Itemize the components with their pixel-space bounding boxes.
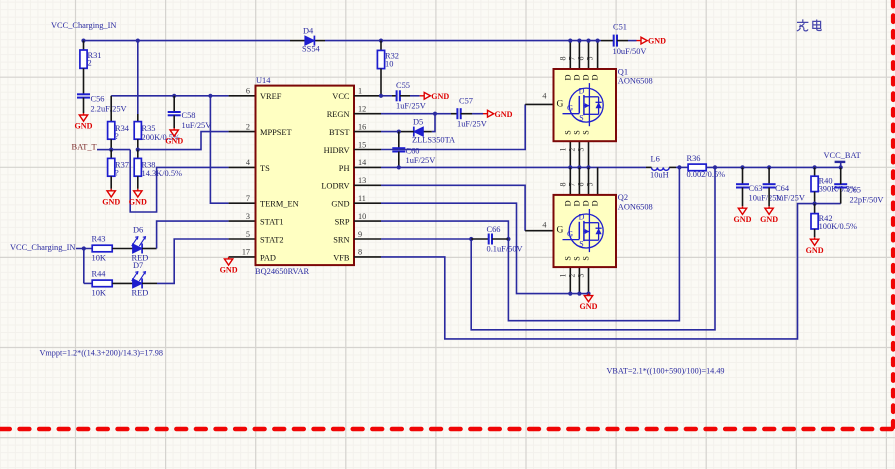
svg-text:Q1: Q1 <box>618 67 628 76</box>
svg-text:VCC_BAT: VCC_BAT <box>824 151 861 160</box>
ground right of C51 <box>637 37 648 44</box>
wire C57 to gnd <box>461 113 472 115</box>
svg-text:S: S <box>572 130 581 135</box>
svg-text:5: 5 <box>586 57 595 61</box>
svg-text:6: 6 <box>246 87 250 96</box>
svg-text:G: G <box>567 228 573 238</box>
svg-text:VCC: VCC <box>332 92 350 101</box>
svg-text:REGN: REGN <box>327 110 350 119</box>
resistor R31 <box>80 50 87 68</box>
pin 9 SRN stub <box>354 238 381 240</box>
resistor R32 top lead <box>380 41 382 51</box>
svg-text:C64: C64 <box>775 184 790 193</box>
pin 2 MPPSET stub <box>229 131 256 133</box>
wire C66 left lead <box>471 238 489 240</box>
wire MPPSET net <box>138 132 229 150</box>
wire D7 cathode <box>142 282 157 284</box>
capacitor C58 bottom lead <box>173 115 175 128</box>
svg-text:C66: C66 <box>487 225 501 234</box>
svg-text:4: 4 <box>246 158 250 167</box>
junction SRN/C66 <box>469 237 473 241</box>
wire to R43 <box>76 248 92 250</box>
wire GND net <box>381 203 589 293</box>
Q2 drain pins 8 7 6 5 <box>569 167 571 195</box>
svg-text:3: 3 <box>246 212 250 221</box>
wire BTST net <box>381 131 399 133</box>
svg-text:GND: GND <box>760 215 778 224</box>
svg-text:10: 10 <box>358 212 366 221</box>
svg-text:7: 7 <box>567 183 576 187</box>
Q1 drain pins 8 7 6 5 <box>569 41 571 69</box>
svg-text:2: 2 <box>246 122 250 131</box>
resistor R38 bottom lead <box>137 176 139 189</box>
svg-text:GND: GND <box>806 246 824 255</box>
svg-text:1uF/25V: 1uF/25V <box>406 156 436 165</box>
resistor R32 <box>377 50 384 68</box>
junction rail/R35-riser <box>136 39 140 43</box>
diode D4 <box>305 36 315 45</box>
svg-text:D7: D7 <box>133 261 143 270</box>
svg-text:BTST: BTST <box>329 128 349 137</box>
svg-text:D: D <box>572 200 581 206</box>
resistor R43 <box>92 245 112 252</box>
wire TERM_EN net <box>210 96 228 203</box>
capacitor C65 <box>834 183 847 185</box>
svg-text:STAT2: STAT2 <box>260 235 284 244</box>
pin 11 GND stub <box>354 202 381 204</box>
svg-text:R44: R44 <box>92 270 107 279</box>
svg-text:SRP: SRP <box>335 218 350 227</box>
capacitor C65 top lead <box>840 167 842 184</box>
svg-text:Q2: Q2 <box>618 193 628 202</box>
svg-text:5: 5 <box>586 183 595 187</box>
wire C65 bottom link <box>815 203 841 205</box>
svg-text:GND: GND <box>580 302 598 311</box>
capacitor C64 bottom lead <box>768 188 770 207</box>
svg-text:D5: D5 <box>413 118 423 127</box>
svg-text:3: 3 <box>577 148 586 152</box>
resistor R34 top lead <box>110 96 112 122</box>
svg-text:D6: D6 <box>133 226 143 235</box>
wire VREF net <box>111 95 228 97</box>
svg-text:10: 10 <box>385 60 393 69</box>
svg-text:D: D <box>582 74 591 80</box>
wire SRN net <box>381 167 715 329</box>
resistor R34 bottom lead <box>110 139 112 149</box>
svg-text:U14: U14 <box>256 76 271 85</box>
junction BAT_T/R34 <box>109 148 113 152</box>
svg-text:C63: C63 <box>749 184 763 193</box>
resistor R31 top lead <box>83 41 85 50</box>
junction rail/C65 <box>839 165 843 169</box>
svg-text:GND: GND <box>495 110 513 119</box>
capacitor C64 top lead <box>768 167 770 184</box>
wire R43-R44 riser <box>83 249 85 284</box>
inductor L6 <box>652 167 670 170</box>
svg-text:GND: GND <box>165 137 183 146</box>
transistor Q1 AON6508 <box>554 69 617 141</box>
wire R44 to D7 <box>112 282 132 284</box>
svg-text:0.1uF/50V: 0.1uF/50V <box>487 245 523 254</box>
svg-text:16: 16 <box>358 122 366 131</box>
capacitor C63 top lead <box>742 167 744 184</box>
resistor R42 <box>811 214 818 229</box>
resistor R37 <box>108 158 115 176</box>
svg-text:22pF/50V: 22pF/50V <box>850 196 884 205</box>
svg-text:C51: C51 <box>613 23 627 32</box>
svg-text:G: G <box>556 225 563 235</box>
resistor R40 <box>811 176 818 191</box>
svg-text:7: 7 <box>246 194 250 203</box>
resistor R38 top lead <box>137 150 139 159</box>
svg-text:HIDRV: HIDRV <box>324 146 350 155</box>
wire TS net <box>130 150 228 212</box>
svg-text:8: 8 <box>558 57 567 61</box>
capacitor C66 <box>488 234 490 245</box>
resistor R42 bottom lead <box>814 229 816 237</box>
wire VFB net <box>381 204 815 339</box>
svg-text:D: D <box>579 86 585 95</box>
junction SRP/C66 <box>506 237 510 241</box>
svg-text:8: 8 <box>558 183 567 187</box>
svg-text:G: G <box>556 100 563 110</box>
ground below R38 <box>134 189 142 197</box>
wire rail D4 leads <box>290 40 305 42</box>
svg-text:C65: C65 <box>847 186 861 195</box>
resistor R42 top lead <box>814 204 816 214</box>
svg-text:8: 8 <box>358 248 362 257</box>
svg-text:AON6508: AON6508 <box>618 202 653 211</box>
svg-text:S: S <box>582 130 591 135</box>
junction R40/R42/C65 <box>813 202 817 206</box>
svg-text:STAT1: STAT1 <box>260 218 284 227</box>
ground below C56 <box>79 113 87 121</box>
resistor R35 <box>134 122 141 140</box>
svg-text:VBAT=2.1*((100+590)/100)=14.49: VBAT=2.1*((100+590)/100)=14.49 <box>607 367 725 376</box>
pin 6 VREF stub <box>229 95 256 97</box>
svg-text:ZLLS350TA: ZLLS350TA <box>412 136 455 145</box>
red dashed border bottom <box>0 427 895 432</box>
ground below C63 <box>738 206 746 214</box>
svg-text:5: 5 <box>246 230 250 239</box>
svg-text:14: 14 <box>358 158 366 167</box>
svg-text:4: 4 <box>542 220 546 229</box>
pin 13 LODRV stub <box>354 184 381 186</box>
svg-text:13: 13 <box>358 176 366 185</box>
pin 3 STAT1 stub <box>229 220 256 222</box>
resistor R35 bottom lead <box>137 139 139 149</box>
svg-text:VREF: VREF <box>260 92 282 101</box>
wire VCC to C55 <box>381 95 392 97</box>
wire R36 to VCC_BAT rail <box>706 166 841 168</box>
ground right of C57 <box>483 110 494 117</box>
wire D5 anode lead <box>423 131 432 133</box>
svg-text:TS: TS <box>260 164 270 173</box>
svg-text:C57: C57 <box>459 97 473 106</box>
ground right of C55 <box>420 92 431 99</box>
svg-text:PH: PH <box>339 164 350 173</box>
junction VREF/TERM_EN riser <box>208 94 212 98</box>
pin 16 BTST stub <box>354 131 381 133</box>
ground at PAD <box>224 257 232 265</box>
svg-text:2.2uF/25V: 2.2uF/25V <box>91 105 127 114</box>
resistor R38 <box>134 158 141 176</box>
svg-text:15: 15 <box>358 140 366 149</box>
capacitor C60 top lead <box>398 132 400 149</box>
svg-text:7: 7 <box>567 57 576 61</box>
resistor R34 <box>108 122 115 140</box>
svg-text:GND: GND <box>129 197 147 206</box>
wire REGN net <box>381 113 435 115</box>
ground below C58 <box>170 128 178 136</box>
svg-text:GND: GND <box>431 92 449 101</box>
wire HIDRV net <box>381 104 525 149</box>
junction VREF/C58 <box>172 94 176 98</box>
wire R43 to D6 <box>112 248 132 250</box>
svg-text:1: 1 <box>558 274 567 278</box>
pin 17 PAD stub <box>229 256 256 258</box>
resistor R36 <box>688 164 706 171</box>
svg-text:GND: GND <box>102 197 120 206</box>
svg-text:SRN: SRN <box>333 235 349 244</box>
transistor Q2 AON6508 <box>554 195 617 267</box>
svg-text:SS54: SS54 <box>302 44 321 53</box>
svg-text:1uF/25V: 1uF/25V <box>182 121 212 130</box>
svg-text:GND: GND <box>734 215 752 224</box>
svg-text:10uH: 10uH <box>650 171 669 180</box>
svg-text:17: 17 <box>242 248 250 257</box>
svg-text:AON6508: AON6508 <box>618 77 653 86</box>
svg-text:R36: R36 <box>687 154 701 163</box>
capacitor C63 bottom lead <box>742 188 744 207</box>
svg-text:C56: C56 <box>91 95 105 104</box>
pin 7 TERM_EN stub <box>229 202 256 204</box>
svg-text:S: S <box>579 239 583 248</box>
svg-text:C55: C55 <box>396 81 410 90</box>
wire Q1 gate lead <box>525 103 553 105</box>
svg-text:VFB: VFB <box>333 253 350 262</box>
wire LODRV net <box>381 185 525 230</box>
ground below Q2 <box>584 294 592 302</box>
junction rail/C63 <box>740 165 744 169</box>
svg-text:S: S <box>572 256 581 261</box>
wire REGN to C57 <box>435 113 451 115</box>
pin 1 VCC stub <box>354 95 381 97</box>
capacitor C60 bottom lead <box>398 152 400 168</box>
svg-text:BAT_T: BAT_T <box>72 142 97 151</box>
svg-text:D4: D4 <box>303 27 314 36</box>
Q1 source pins 1 2 3 <box>569 141 571 167</box>
svg-text:9: 9 <box>358 230 362 239</box>
capacitor C65 bottom lead <box>840 188 842 204</box>
junction R35/R38/MPPSET <box>136 148 140 152</box>
svg-text:14.3K/0.5%: 14.3K/0.5% <box>142 169 183 178</box>
pin 8 VFB stub <box>354 256 381 258</box>
svg-text:3: 3 <box>577 274 586 278</box>
svg-text:D: D <box>563 200 572 206</box>
wire R35 riser <box>137 41 139 114</box>
resistor R44 <box>92 280 112 287</box>
svg-text:1uF/25V: 1uF/25V <box>396 102 426 111</box>
LED D7 <box>133 279 143 288</box>
op-amp U1 replaced: IC U14 BQ24650RVAR <box>256 86 355 266</box>
svg-text:L6: L6 <box>651 155 660 164</box>
wire SRP net <box>381 167 679 320</box>
junction rail/R40 <box>813 165 817 169</box>
wire PH net <box>381 166 646 168</box>
junction BTST/C60 <box>397 130 401 134</box>
svg-text:PAD: PAD <box>260 253 276 262</box>
svg-text:G: G <box>567 103 573 113</box>
svg-text:2: 2 <box>567 148 576 152</box>
pin 15 HIDRV stub <box>354 149 381 151</box>
capacitor C55 <box>396 90 398 101</box>
junction REGN/D5 riser <box>433 112 437 116</box>
svg-text:0.002/0.5%: 0.002/0.5% <box>687 170 726 179</box>
resistor R32 bottom lead <box>380 69 382 96</box>
svg-text:6: 6 <box>577 183 586 187</box>
capacitor C56 <box>77 93 90 95</box>
svg-text:1uF/25V: 1uF/25V <box>457 120 487 129</box>
svg-text:D: D <box>572 74 581 80</box>
wire to R44 <box>84 282 92 284</box>
junction rail/C64 <box>767 165 771 169</box>
svg-text:GND: GND <box>75 122 93 131</box>
capacitor C57 <box>456 108 458 119</box>
svg-text:MPPSET: MPPSET <box>260 128 292 137</box>
junction PH/SRP tap <box>677 165 681 169</box>
svg-text:10K: 10K <box>92 289 106 298</box>
svg-text:D: D <box>579 212 585 221</box>
svg-text:11: 11 <box>358 194 366 203</box>
svg-text:D: D <box>591 74 600 80</box>
capacitor C58 <box>168 111 181 113</box>
svg-text:?: ? <box>115 169 119 178</box>
svg-text:LODRV: LODRV <box>321 182 349 191</box>
resistor R40 bottom lead <box>814 192 816 204</box>
svg-text:R35: R35 <box>142 124 156 133</box>
ground below R42 <box>810 237 818 245</box>
capacitor C56 bottom lead <box>83 98 85 113</box>
svg-text:10K: 10K <box>92 254 106 263</box>
junction rail/SRN tap <box>713 165 717 169</box>
svg-text:RED: RED <box>132 289 149 298</box>
capacitor C64 <box>763 183 776 185</box>
svg-text:1: 1 <box>558 148 567 152</box>
ground below R37 <box>107 189 115 197</box>
capacitor C51 <box>613 35 615 47</box>
svg-text:2: 2 <box>88 59 92 68</box>
junction gndbus/Q2S3 <box>586 292 590 296</box>
wire BAT_T to TS riser <box>111 149 130 151</box>
resistor R31 bottom lead <box>83 68 85 94</box>
wire D6 cathode <box>142 248 157 250</box>
wire rail after D4 <box>325 40 601 42</box>
junction rail/R31 <box>81 39 85 43</box>
junction gndbus/Q2S1 <box>568 292 572 296</box>
resistor R37 bottom lead <box>110 176 112 189</box>
pin 4 TS stub <box>229 166 256 168</box>
svg-text:R43: R43 <box>92 235 106 244</box>
wire BAT_T stub <box>97 149 111 151</box>
svg-text:S: S <box>579 114 583 123</box>
resistor R37 top lead <box>110 150 112 159</box>
pin 10 SRP stub <box>354 220 381 222</box>
svg-text:S: S <box>563 130 572 135</box>
wire D5 riser <box>432 114 435 132</box>
svg-text:1: 1 <box>358 87 362 96</box>
text title 充电 <box>797 19 821 31</box>
wire L6 to R36 <box>676 166 688 168</box>
ground below C64 <box>765 206 773 214</box>
power port VCC_BAT <box>835 161 846 163</box>
wire Q2 gate lead <box>525 230 553 232</box>
red dashed border right <box>891 0 895 427</box>
diode D5 <box>414 127 424 136</box>
svg-text:D: D <box>582 200 591 206</box>
resistor R40 top lead <box>814 167 816 176</box>
capacitor C60 <box>392 147 405 149</box>
svg-text:VCC_Charging_IN: VCC_Charging_IN <box>10 243 75 252</box>
svg-text:S: S <box>582 256 591 261</box>
Q2 source pins 1 2 3 <box>569 266 571 293</box>
svg-text:10uF/50V: 10uF/50V <box>613 47 647 56</box>
wire VCC_Charging_IN rail <box>84 40 291 42</box>
svg-text:D: D <box>563 74 572 80</box>
capacitor C51 left lead <box>601 40 614 42</box>
wire C55 to gnd <box>400 95 410 97</box>
svg-text:Vmppt=1.2*((14.3+200)/14.3)=17: Vmppt=1.2*((14.3+200)/14.3)=17.98 <box>40 348 163 357</box>
junction VCC/R32/C55 <box>379 94 383 98</box>
LED D6 <box>133 244 143 253</box>
svg-text:GND: GND <box>331 200 349 209</box>
svg-text:BQ24650RVAR: BQ24650RVAR <box>255 267 310 276</box>
wire D5 cathode lead <box>399 131 414 133</box>
svg-text:D: D <box>591 200 600 206</box>
junction R43/R44 tap <box>82 246 86 250</box>
svg-text:4: 4 <box>542 92 546 101</box>
wire C66 right lead <box>492 238 508 240</box>
svg-text:C60: C60 <box>406 147 420 156</box>
wire C51 to gnd <box>617 40 628 42</box>
capacitor C58 top lead <box>173 96 175 112</box>
wire STAT1 net <box>157 221 229 248</box>
junction gndbus/Q2S2 <box>577 292 581 296</box>
svg-text:6: 6 <box>577 57 586 61</box>
junction rail/R32 <box>379 39 383 43</box>
pin 12 REGN stub <box>354 113 381 115</box>
pin 14 PH stub <box>354 166 381 168</box>
wire STAT2 net <box>157 239 229 283</box>
svg-text:S: S <box>563 256 572 261</box>
svg-text:1uF/25V: 1uF/25V <box>775 194 805 203</box>
capacitor C63 <box>736 183 749 185</box>
pin 5 STAT2 stub <box>229 238 256 240</box>
svg-text:TERM_EN: TERM_EN <box>260 200 299 209</box>
svg-text:VCC_Charging_IN: VCC_Charging_IN <box>51 21 116 30</box>
svg-text:C58: C58 <box>182 111 196 120</box>
svg-text:GND: GND <box>648 37 666 46</box>
svg-text:2: 2 <box>567 274 576 278</box>
svg-text:12: 12 <box>358 105 366 114</box>
svg-text:100K/0.5%: 100K/0.5% <box>819 222 857 231</box>
junction C60/PH <box>397 165 401 169</box>
svg-text:?: ? <box>115 132 119 141</box>
svg-text:GND: GND <box>220 266 238 275</box>
